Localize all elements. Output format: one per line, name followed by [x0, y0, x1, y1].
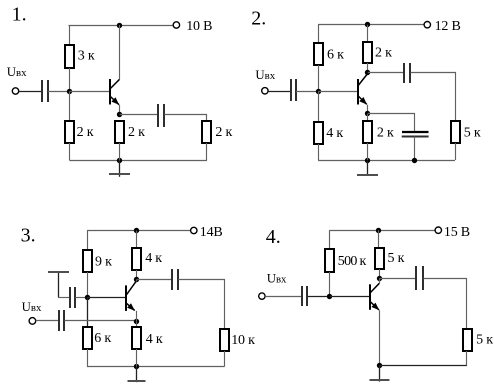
- wire bottom rail circuit 4: [380, 365, 467, 367]
- wire R15 to base node: [329, 272, 331, 296]
- wire input terminal to C7: [36, 320, 59, 322]
- resistor R7 2к (collector): [363, 42, 372, 63]
- junction dot ground node circuit 1: [117, 158, 122, 163]
- input terminal circuit 3: [29, 318, 36, 325]
- svg-text:4 к: 4 к: [326, 126, 343, 141]
- resistor R9 5к (load): [451, 121, 460, 143]
- capacitor C1 (input coupling): [42, 80, 48, 102]
- svg-text:Uвх: Uвх: [267, 272, 287, 286]
- transistor VT3 (NPN): [126, 281, 136, 311]
- wire top rail circuit 1 (+10V): [69, 25, 174, 27]
- capacitor C4 (output coupling): [404, 63, 410, 83]
- node emitter junction circuit 1: [117, 112, 122, 117]
- node base junction circuit 3: [85, 295, 90, 300]
- resistor R12 4к (collector): [132, 248, 141, 270]
- wire collector node to C8: [137, 279, 173, 281]
- svg-text:4.: 4.: [266, 226, 281, 248]
- node emitter junction circuit 2: [365, 111, 370, 116]
- wire rail to R7: [367, 25, 369, 43]
- wire C4 to load R9: [411, 73, 456, 122]
- junction dot rail node circuit 3: [134, 228, 139, 233]
- wire C9 to base node: [307, 296, 329, 298]
- input terminal circuit 1: [12, 88, 18, 94]
- wire R16 to collector node: [379, 269, 381, 278]
- wire base node to transistor VT3: [87, 297, 126, 299]
- ground circuit 4: [370, 366, 390, 382]
- wire C3 to base node: [296, 91, 318, 93]
- capacitor C3 (input coupling): [291, 79, 296, 101]
- svg-text:5 к: 5 к: [464, 126, 481, 141]
- wire R9 to bottom rail: [455, 143, 457, 160]
- node emitter junction circuit 3: [134, 319, 139, 324]
- wire input terminal to C1: [19, 91, 42, 93]
- svg-text:5 к: 5 к: [476, 332, 493, 347]
- svg-text:2 к: 2 к: [215, 125, 232, 140]
- ground circuit 2: [357, 161, 378, 176]
- svg-text:5 к: 5 к: [388, 251, 405, 266]
- wire R8 to bottom rail: [367, 143, 369, 160]
- node emitter-ground junction circuit 4: [377, 363, 382, 368]
- resistor R1 3к (base bias upper): [65, 45, 74, 68]
- input terminal circuit 2: [262, 88, 268, 94]
- capacitor C5 (emitter bypass): [402, 132, 429, 137]
- svg-text:6 к: 6 к: [94, 331, 111, 346]
- junction dot rail node circuit 2: [365, 22, 370, 27]
- wire collector node to C4: [368, 72, 404, 74]
- wire bottom rail circuit 1: [70, 160, 207, 162]
- junction dot C5-rail circuit 2: [412, 158, 417, 163]
- wire top rail circuit 2 (+12V): [318, 24, 424, 26]
- svg-text:14В: 14В: [200, 225, 223, 240]
- junction dot collector-rail node: [117, 23, 122, 28]
- wire emitter node to bypass C5: [368, 114, 415, 133]
- wire base node to transistor VT2: [318, 91, 357, 93]
- svg-text:4 к: 4 к: [145, 251, 162, 266]
- wire R4 to bottom rail: [206, 143, 208, 160]
- svg-text:2 к: 2 к: [375, 46, 392, 61]
- node collector junction circuit 4: [377, 276, 382, 281]
- wire R1 bottom to base node: [69, 68, 71, 91]
- wire R13 to bottom rail: [224, 351, 226, 367]
- transistor VT4 (NPN): [370, 283, 379, 310]
- resistor R11 6к (base bias lower): [83, 327, 92, 349]
- wire rail to R1: [69, 25, 71, 45]
- resistor R5 6к (base bias upper): [314, 43, 323, 65]
- svg-text:4 к: 4 к: [146, 332, 163, 347]
- node collector junction circuit 2: [365, 70, 370, 75]
- capacitor C9 (input coupling): [302, 286, 307, 306]
- wire rail to R12: [136, 231, 138, 249]
- resistor R10 9к (base bias upper): [83, 250, 92, 272]
- transistor VT1 (NPN): [110, 79, 120, 105]
- wire rail corner to R15: [329, 230, 331, 249]
- wire R10 to base node: [87, 272, 89, 298]
- wire emitter VT1 to emitter node: [119, 105, 121, 115]
- wire input terminal to C3: [268, 91, 291, 93]
- svg-text:1.: 1.: [12, 3, 27, 25]
- resistor R3 2к (emitter): [115, 121, 124, 143]
- wire emitter VT3 to emitter node: [136, 311, 138, 322]
- wire collector VT3 stub: [136, 280, 138, 282]
- wire collector VT4 stub: [379, 278, 381, 283]
- svg-text:6 к: 6 к: [327, 48, 344, 63]
- svg-text:12 В: 12 В: [435, 19, 461, 34]
- wire C8 to load R13: [178, 280, 224, 330]
- wire C6 ground lead: [58, 297, 70, 299]
- node base junction circuit 4: [327, 294, 332, 299]
- wire R2 to bottom rail: [69, 143, 71, 160]
- svg-text:15 В: 15 В: [444, 225, 470, 240]
- resistor R15 500к (base bias): [325, 249, 334, 272]
- wire R7 to collector node: [367, 63, 369, 72]
- resistor R14 4к (emitter): [132, 327, 141, 349]
- wire emitter VT4 to ground node: [379, 310, 381, 366]
- wire C2 to load R4: [164, 115, 206, 122]
- wire top rail circuit 4 (+15V): [329, 230, 435, 232]
- wire R17 to bottom rail: [466, 351, 468, 366]
- wire rail to R5: [318, 25, 320, 43]
- wire collector VT1 to top rail: [119, 25, 121, 79]
- wire collector node to C10: [379, 278, 416, 280]
- wire R6 to bottom rail: [318, 144, 320, 160]
- terminal +14V: [191, 227, 197, 233]
- svg-text:3.: 3.: [21, 224, 36, 246]
- wire base node down to R11: [87, 298, 89, 327]
- svg-text:9 к: 9 к: [95, 255, 112, 270]
- wire C10 to load R17: [424, 279, 467, 330]
- capacitor C7 (input coupling): [59, 310, 64, 331]
- junction dot ground node circuit 3: [134, 364, 139, 369]
- terminal +12V: [424, 22, 430, 28]
- resistor R16 5к (collector): [375, 248, 384, 269]
- input terminal circuit 4: [259, 293, 265, 299]
- wire bottom rail circuit 3: [87, 366, 225, 368]
- ground circuit 3: [128, 367, 146, 383]
- wire emitter VT2 to emitter node: [367, 105, 369, 114]
- resistor R6 4к (base bias lower): [314, 122, 323, 144]
- ground for base bypass capacitor C6: [48, 272, 69, 298]
- wire emitter node down to R14: [136, 322, 138, 328]
- wire base node down to R6: [318, 91, 320, 122]
- capacitor C8 (output coupling): [172, 269, 178, 290]
- capacitor C6 (base bypass): [70, 287, 75, 308]
- wire rail to R10: [87, 231, 89, 251]
- transistor VT2 (NPN): [358, 74, 367, 105]
- wire input terminal to C9: [265, 296, 302, 298]
- svg-text:Uвх: Uвх: [22, 300, 42, 314]
- wire bottom rail circuit 2: [318, 160, 455, 162]
- junction dot ground node circuit 2: [365, 158, 370, 163]
- wire C1 to base node: [48, 91, 70, 93]
- resistor R2 2к (base bias lower): [65, 121, 74, 143]
- resistor R13 10к (load): [220, 329, 229, 351]
- node base junction circuit 2: [316, 89, 321, 94]
- wire C7 to emitter node: [65, 320, 137, 322]
- capacitor C2 (output coupling): [158, 104, 164, 127]
- svg-text:10 В: 10 В: [186, 19, 212, 34]
- capacitor C10 (output coupling): [416, 266, 423, 290]
- wire R11 to bottom rail: [87, 349, 89, 367]
- wire R12 to collector node: [136, 270, 138, 280]
- svg-text:2.: 2.: [251, 7, 266, 29]
- wire base node to transistor VT1: [70, 91, 110, 93]
- wire R14 to bottom rail: [136, 349, 138, 367]
- wire base node to transistor VT4: [330, 296, 370, 298]
- wire top rail circuit 3 (+14V): [87, 230, 191, 232]
- wire base node down to R2: [69, 91, 71, 121]
- wire R5 to base node: [318, 65, 320, 91]
- wire emitter node to C2: [120, 114, 159, 116]
- svg-text:500 к: 500 к: [338, 254, 367, 269]
- junction dot rail node circuit 4: [376, 228, 381, 233]
- svg-text:2 к: 2 к: [77, 125, 94, 140]
- svg-text:3 к: 3 к: [78, 49, 95, 64]
- resistor R8 2к (emitter): [363, 121, 372, 143]
- wire C5 to bottom rail: [414, 137, 416, 161]
- resistor R17 5к (load): [463, 329, 472, 351]
- svg-text:Uвх: Uвх: [7, 65, 27, 79]
- node base junction circuit 1: [67, 89, 72, 94]
- terminal +15V: [435, 227, 441, 233]
- svg-text:10 к: 10 к: [231, 333, 255, 348]
- resistor R4 2к (load): [202, 121, 211, 143]
- svg-text:Uвх: Uвх: [255, 68, 275, 82]
- node collector junction circuit 3: [134, 277, 139, 282]
- svg-text:2 к: 2 к: [128, 125, 145, 140]
- terminal +10V: [173, 22, 179, 28]
- wire R3 to bottom rail: [119, 143, 121, 160]
- wire C6 to base node: [75, 297, 87, 299]
- ground circuit 1: [109, 161, 130, 177]
- wire emitter node down to R8: [367, 114, 369, 121]
- wire rail to R16: [378, 230, 380, 248]
- svg-text:2 к: 2 к: [377, 126, 394, 141]
